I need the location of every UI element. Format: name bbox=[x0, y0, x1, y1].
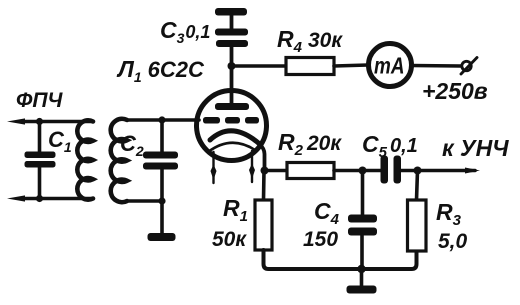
wire cathode node to R2 bbox=[265, 169, 288, 173]
svg-text:ФПЧ: ФПЧ bbox=[16, 89, 64, 112]
wire meter to terminal bbox=[412, 64, 461, 68]
capacitor C1 bbox=[25, 152, 56, 168]
svg-text:к УНЧ: к УНЧ bbox=[442, 135, 509, 161]
wire R1 top bbox=[262, 171, 266, 201]
node bottom of C2 bbox=[158, 197, 165, 204]
wire anode to R4 bbox=[232, 64, 287, 68]
node ground tap bbox=[357, 265, 365, 273]
svg-text:С50,1: С50,1 bbox=[362, 131, 418, 161]
svg-text:R430к: R430к bbox=[277, 26, 343, 56]
node top of C2 bbox=[158, 116, 165, 123]
node bottom of C1 bbox=[36, 195, 43, 202]
wire C1 top stub bbox=[38, 122, 42, 152]
resistor R4 bbox=[286, 58, 334, 75]
wire C4 bottom stub bbox=[360, 236, 364, 270]
ground bottom center bbox=[347, 286, 377, 294]
wire R2 to C5 bbox=[334, 169, 381, 173]
capacitor C2 bbox=[143, 152, 178, 170]
svg-text:R1: R1 bbox=[223, 195, 248, 225]
wire C1 bottom stub bbox=[38, 168, 42, 199]
meter mA bbox=[369, 44, 412, 87]
resistor R3 bbox=[408, 200, 427, 251]
wire C2 top stub bbox=[160, 120, 164, 152]
resistor R1 bbox=[255, 200, 272, 250]
inductor L secondary coil bbox=[111, 119, 127, 202]
svg-text:mA: mA bbox=[374, 53, 405, 79]
svg-text:Л16С2С: Л16С2С bbox=[116, 56, 205, 85]
svg-text:С1: С1 bbox=[48, 127, 72, 155]
wire secondary top to grid bbox=[127, 118, 199, 122]
wire secondary bottom bbox=[127, 199, 162, 203]
arrow input bottom terminal bbox=[7, 195, 25, 201]
tube envelope U1 bbox=[197, 91, 267, 161]
svg-text:С4: С4 bbox=[314, 198, 340, 228]
svg-text:R220к: R220к bbox=[278, 129, 342, 159]
svg-text:R3: R3 bbox=[436, 199, 462, 229]
wire C5 to output bbox=[401, 169, 475, 173]
node anode junction bbox=[228, 62, 236, 70]
tube filament right lead with arrow bbox=[251, 151, 253, 182]
svg-text:С30,1: С30,1 bbox=[160, 17, 210, 46]
wire bottom-left input line bbox=[20, 197, 93, 201]
wire R4 to meter bbox=[334, 65, 368, 66]
wire C3 top stub bbox=[230, 15, 234, 29]
svg-text:5,0: 5,0 bbox=[438, 230, 468, 253]
wire ground stub bbox=[360, 269, 364, 286]
tube cathode arc bbox=[210, 131, 259, 144]
node cathode junction bbox=[261, 167, 269, 175]
ground under C2 bbox=[148, 233, 176, 241]
inductor L primary coil bbox=[77, 120, 93, 199]
wire top-left input line bbox=[20, 120, 93, 124]
wire C2 bottom stub bbox=[160, 170, 164, 202]
tube anode plate bbox=[215, 103, 249, 110]
wire cathode lead bbox=[259, 144, 265, 171]
resistor R2 bbox=[287, 163, 334, 179]
arrow output к УНЧ bbox=[465, 168, 480, 174]
capacitor C3 bbox=[215, 29, 248, 48]
tube grid dashes bbox=[203, 117, 259, 124]
wire C3 to anode node bbox=[230, 47, 234, 66]
terminal +250в bbox=[462, 61, 471, 70]
svg-text:+250в: +250в bbox=[422, 78, 488, 104]
ground top of C3 bbox=[215, 8, 247, 16]
svg-text:С2: С2 bbox=[120, 131, 144, 159]
wire anode lead bbox=[230, 66, 234, 103]
tube filament arc bbox=[208, 143, 257, 152]
node C4 tap bbox=[359, 167, 367, 175]
svg-text:50к: 50к bbox=[212, 228, 247, 251]
wire R3 top stub bbox=[417, 171, 418, 201]
wire to ground stub bbox=[160, 201, 164, 234]
arrow input top terminal bbox=[7, 118, 25, 124]
tube filament left lead with arrow bbox=[212, 152, 214, 183]
wire C4 top stub bbox=[361, 171, 365, 216]
capacitor C4 bbox=[348, 215, 377, 236]
node top of C1 bbox=[36, 118, 43, 125]
capacitor C5 bbox=[381, 156, 402, 184]
node R3 tap bbox=[414, 167, 422, 175]
svg-text:150: 150 bbox=[303, 228, 338, 251]
wire bottom rail bbox=[264, 250, 417, 269]
